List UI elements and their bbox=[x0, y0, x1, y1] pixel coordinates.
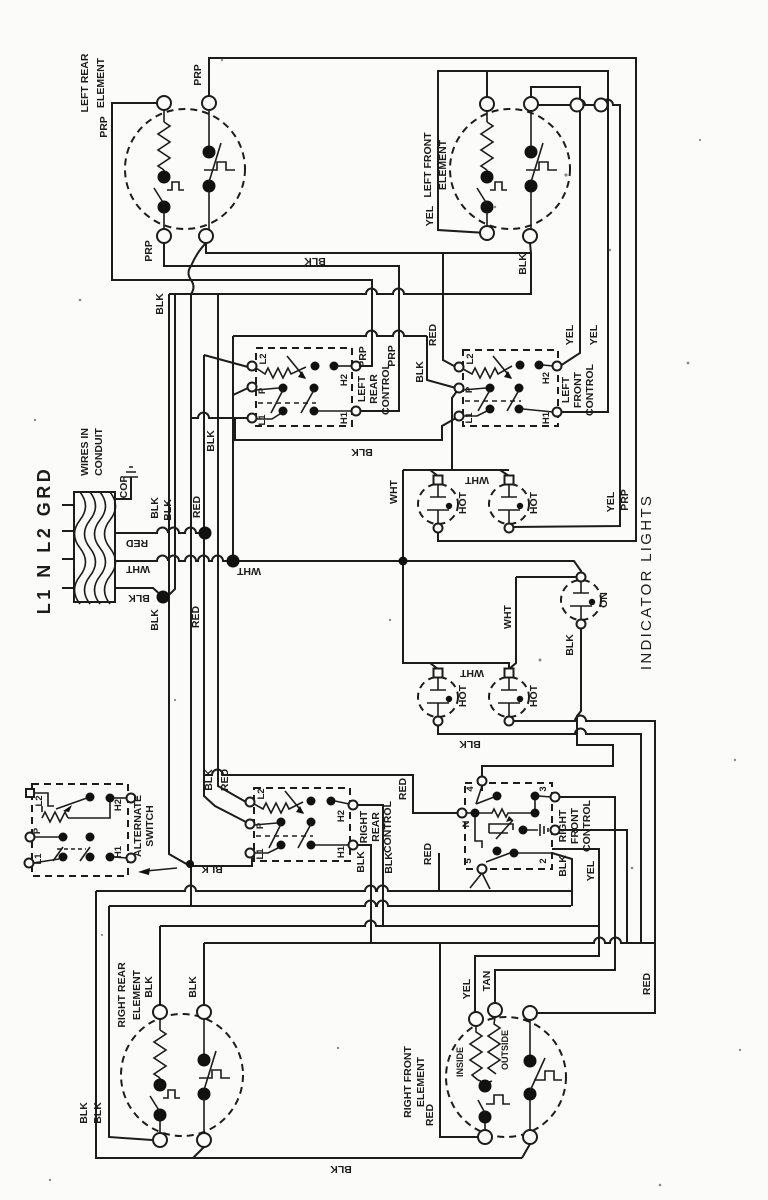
svg-text:H1: H1 bbox=[113, 845, 124, 858]
svg-text:L1 N L2 GRD: L1 N L2 GRD bbox=[34, 466, 54, 615]
svg-text:WHT: WHT bbox=[236, 565, 260, 577]
svg-text:PRP: PRP bbox=[98, 116, 110, 138]
svg-text:L2: L2 bbox=[256, 788, 267, 799]
svg-text:H1: H1 bbox=[541, 411, 552, 424]
svg-text:SWITCH: SWITCH bbox=[144, 805, 156, 846]
svg-text:P: P bbox=[464, 386, 475, 393]
svg-text:LEFT: LEFT bbox=[356, 375, 368, 402]
svg-text:RED: RED bbox=[125, 537, 148, 549]
svg-text:YEL: YEL bbox=[564, 324, 576, 345]
svg-text:YEL: YEL bbox=[605, 491, 617, 512]
svg-text:BLK: BLK bbox=[78, 1102, 90, 1124]
svg-text:H2: H2 bbox=[339, 374, 350, 386]
svg-text:HOT: HOT bbox=[457, 491, 469, 514]
svg-text:RIGHT FRONT: RIGHT FRONT bbox=[402, 1046, 414, 1118]
svg-text:YEL: YEL bbox=[585, 860, 597, 881]
svg-text:PRP: PRP bbox=[386, 345, 398, 367]
svg-text:L2: L2 bbox=[258, 353, 269, 364]
svg-text:FRONT: FRONT bbox=[572, 371, 584, 408]
svg-text:BLK: BLK bbox=[330, 1163, 352, 1175]
svg-text:CONTROL: CONTROL bbox=[380, 362, 392, 414]
svg-text:CONTROL: CONTROL bbox=[584, 363, 596, 415]
svg-text:RED: RED bbox=[427, 323, 439, 346]
svg-text:P: P bbox=[257, 387, 268, 394]
svg-text:PRP: PRP bbox=[619, 489, 631, 511]
svg-text:RED: RED bbox=[424, 1103, 436, 1126]
svg-text:2: 2 bbox=[538, 858, 549, 863]
svg-text:HOT: HOT bbox=[528, 684, 540, 707]
svg-text:YEL: YEL bbox=[588, 324, 600, 345]
svg-text:BLK: BLK bbox=[557, 855, 569, 877]
svg-text:PRP: PRP bbox=[143, 240, 155, 262]
svg-text:BLK: BLK bbox=[414, 361, 426, 383]
svg-text:CONTROL: CONTROL bbox=[382, 800, 394, 852]
svg-text:TAN: TAN bbox=[481, 971, 493, 992]
svg-text:LEFT FRONT: LEFT FRONT bbox=[422, 132, 434, 198]
svg-text:L2: L2 bbox=[465, 353, 476, 364]
svg-text:YEL: YEL bbox=[424, 205, 436, 226]
svg-text:HOT: HOT bbox=[457, 684, 469, 707]
svg-text:3: 3 bbox=[538, 786, 549, 791]
svg-text:PRP: PRP bbox=[192, 64, 204, 86]
svg-text:L1: L1 bbox=[257, 414, 268, 426]
svg-text:RED: RED bbox=[190, 605, 202, 628]
svg-text:L2: L2 bbox=[34, 795, 45, 806]
svg-text:BLK: BLK bbox=[355, 851, 367, 873]
svg-text:4: 4 bbox=[465, 786, 476, 792]
svg-text:BLK: BLK bbox=[459, 738, 481, 750]
svg-text:BLK: BLK bbox=[205, 430, 217, 452]
svg-text:L1: L1 bbox=[33, 853, 44, 865]
svg-text:COP: COP bbox=[118, 476, 130, 499]
svg-text:REAR: REAR bbox=[368, 374, 380, 404]
svg-text:H1: H1 bbox=[336, 845, 347, 858]
svg-text:WHT: WHT bbox=[388, 479, 400, 503]
svg-text:RED: RED bbox=[397, 777, 409, 800]
svg-text:RED: RED bbox=[422, 842, 434, 865]
svg-text:HOT: HOT bbox=[528, 491, 540, 514]
svg-text:ELEMENT: ELEMENT bbox=[415, 1056, 427, 1107]
svg-text:ELEMENT: ELEMENT bbox=[131, 969, 143, 1020]
svg-text:RED: RED bbox=[219, 768, 231, 791]
svg-text:CONTROL: CONTROL bbox=[581, 799, 593, 851]
svg-text:L1: L1 bbox=[255, 848, 266, 860]
svg-text:ELEMENT: ELEMENT bbox=[437, 139, 449, 190]
svg-text:CONDUIT: CONDUIT bbox=[93, 428, 105, 476]
svg-text:RIGHT: RIGHT bbox=[557, 809, 569, 842]
svg-text:BLK: BLK bbox=[201, 863, 223, 875]
svg-text:P: P bbox=[255, 822, 266, 829]
svg-text:FRONT: FRONT bbox=[569, 807, 581, 844]
svg-text:BLK: BLK bbox=[203, 769, 215, 791]
svg-text:WHT: WHT bbox=[502, 604, 514, 628]
svg-text:BLK: BLK bbox=[383, 852, 395, 874]
svg-text:ELEMENT: ELEMENT bbox=[95, 57, 107, 108]
svg-text:H2: H2 bbox=[113, 799, 124, 811]
svg-text:RED: RED bbox=[641, 972, 653, 995]
svg-text:H2: H2 bbox=[336, 810, 347, 822]
svg-text:PRP: PRP bbox=[357, 346, 369, 368]
svg-text:WHT: WHT bbox=[125, 563, 149, 575]
svg-text:WHT: WHT bbox=[464, 474, 488, 486]
svg-text:INDICATOR LIGHTS: INDICATOR LIGHTS bbox=[638, 494, 655, 670]
svg-text:N: N bbox=[461, 820, 472, 827]
svg-text:BLK: BLK bbox=[517, 253, 529, 275]
svg-text:BLK: BLK bbox=[92, 1102, 104, 1124]
svg-text:ON: ON bbox=[598, 592, 610, 608]
svg-text:BLK: BLK bbox=[564, 634, 576, 656]
svg-text:WIRES IN: WIRES IN bbox=[79, 428, 91, 476]
svg-text:H1: H1 bbox=[339, 411, 350, 424]
svg-text:INSIDE: INSIDE bbox=[455, 1047, 465, 1077]
svg-text:REAR: REAR bbox=[370, 812, 382, 842]
svg-text:P: P bbox=[32, 827, 43, 834]
svg-text:5: 5 bbox=[463, 858, 474, 864]
svg-text:BLK: BLK bbox=[162, 499, 174, 521]
svg-text:BLK: BLK bbox=[187, 976, 199, 998]
svg-text:BLK: BLK bbox=[304, 255, 326, 267]
svg-text:BLK: BLK bbox=[143, 976, 155, 998]
svg-text:RIGHT REAR: RIGHT REAR bbox=[116, 962, 128, 1028]
svg-text:BLK: BLK bbox=[128, 592, 150, 604]
svg-text:LEFT: LEFT bbox=[560, 376, 572, 403]
svg-text:WHT: WHT bbox=[459, 667, 483, 679]
svg-text:OUTSIDE: OUTSIDE bbox=[500, 1030, 510, 1070]
svg-text:YEL: YEL bbox=[461, 978, 473, 999]
svg-text:BLK: BLK bbox=[351, 446, 373, 458]
svg-text:RED: RED bbox=[191, 495, 203, 518]
svg-text:L1: L1 bbox=[464, 412, 475, 424]
svg-text:RIGHT: RIGHT bbox=[358, 810, 370, 843]
svg-text:BLK: BLK bbox=[154, 293, 166, 315]
svg-text:ALTERNATE: ALTERNATE bbox=[132, 795, 144, 857]
svg-text:BLK: BLK bbox=[149, 497, 161, 519]
svg-text:LEFT REAR: LEFT REAR bbox=[79, 53, 91, 112]
svg-text:BLK: BLK bbox=[149, 609, 161, 631]
svg-text:H2: H2 bbox=[541, 372, 552, 384]
